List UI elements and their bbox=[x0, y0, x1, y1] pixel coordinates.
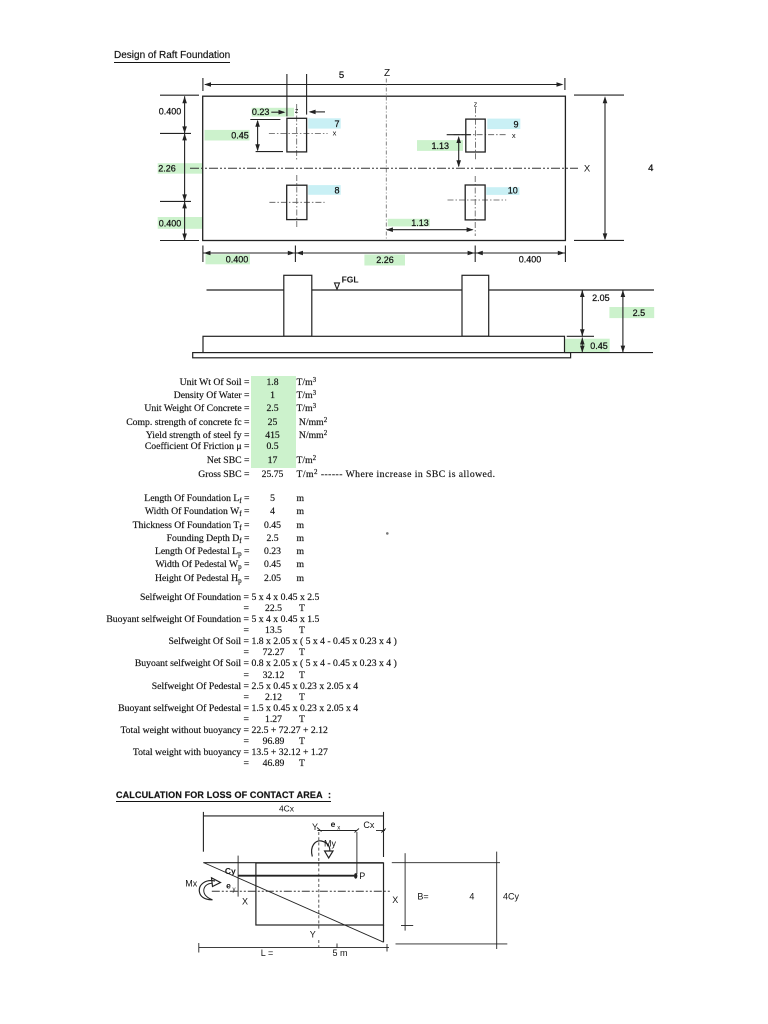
highlight pedestal 7 tag bbox=[308, 118, 341, 128]
svg-text:X: X bbox=[392, 895, 398, 905]
stray mark bbox=[386, 532, 389, 535]
lean concrete layer bbox=[193, 353, 571, 358]
foundation rectangle bbox=[256, 863, 384, 925]
svg-text:z: z bbox=[295, 108, 299, 115]
top edge from apex bbox=[203, 862, 383, 864]
Y axis dashed bbox=[318, 832, 320, 929]
svg-text:L =: L = bbox=[261, 948, 273, 958]
svg-text:Cy: Cy bbox=[225, 866, 236, 876]
left dimension chain line bbox=[160, 95, 199, 240]
section pedestal right bbox=[462, 275, 489, 336]
node Z axis dashed line bbox=[385, 79, 387, 241]
dim Cx line bbox=[376, 830, 385, 832]
dim 1.13 (pedestal 9 to X axis) bbox=[447, 135, 471, 168]
svg-text:10: 10 bbox=[508, 186, 518, 196]
highlight 1.13 (bottom) bbox=[388, 219, 430, 227]
dim 4Cx line bbox=[203, 812, 383, 857]
svg-text:X: X bbox=[242, 896, 248, 906]
Cy/ey tick line bbox=[237, 856, 239, 897]
svg-text:0.45: 0.45 bbox=[590, 341, 608, 351]
tick at Y axis top bbox=[317, 828, 322, 832]
dim 2.05 bbox=[567, 290, 594, 336]
svg-text:FGL: FGL bbox=[342, 275, 359, 285]
svg-text:My: My bbox=[324, 839, 336, 849]
dim 1.13 (Z axis to pedestal 10) bbox=[386, 227, 474, 232]
right edge extension bbox=[383, 925, 385, 942]
dim ex line bbox=[317, 830, 356, 832]
svg-text:0.400: 0.400 bbox=[159, 106, 182, 116]
dim 4Cy line bbox=[396, 852, 508, 949]
FGL marker bbox=[335, 283, 340, 289]
highlight pedestal 10 tag bbox=[486, 187, 519, 195]
svg-text:0.400: 0.400 bbox=[159, 218, 182, 228]
svg-text:4Cy: 4Cy bbox=[503, 892, 520, 902]
svg-text:9: 9 bbox=[513, 120, 518, 130]
dim 4 line (right) bbox=[574, 95, 624, 240]
dim 0.45 (pedestal 7) bbox=[250, 120, 283, 152]
svg-text:z: z bbox=[474, 101, 478, 108]
pedestal 9 bbox=[454, 107, 508, 160]
tick at right edge bbox=[381, 829, 386, 833]
ground line bbox=[207, 289, 655, 291]
svg-text:4: 4 bbox=[648, 163, 653, 174]
X centerline (contact) bbox=[212, 890, 390, 892]
highlight 1.13 (top) bbox=[417, 140, 463, 151]
svg-text:x: x bbox=[333, 129, 337, 138]
bottom dimension chain bbox=[203, 246, 566, 263]
P vertical line bbox=[356, 832, 358, 874]
svg-text:4Cx: 4Cx bbox=[279, 803, 295, 813]
dim 5 line (top) bbox=[203, 78, 565, 91]
svg-text:Cx: Cx bbox=[363, 820, 374, 830]
svg-text:1.13: 1.13 bbox=[432, 141, 450, 151]
node X axis dash-dot centerline bbox=[190, 167, 578, 169]
dim 0.23 (pedestal 7) bbox=[271, 74, 325, 116]
svg-text:e: e bbox=[331, 819, 336, 829]
P load line bbox=[238, 875, 354, 877]
raft plan outline bbox=[203, 96, 566, 240]
highlight 0.45 bbox=[205, 130, 250, 141]
highlight 0.23 bbox=[252, 108, 294, 117]
svg-text:2.26: 2.26 bbox=[158, 164, 176, 174]
dim B line bbox=[392, 853, 413, 930]
svg-text:0.400: 0.400 bbox=[519, 255, 542, 265]
svg-text:P: P bbox=[359, 871, 365, 881]
highlight 0.400 (bottom-left) bbox=[158, 217, 203, 229]
raft slab bbox=[203, 336, 565, 352]
pedestal 10 bbox=[448, 176, 507, 236]
highlight 0.400 (bottom dim) bbox=[206, 254, 251, 264]
moment Mx curved arrow bbox=[199, 878, 220, 900]
highlight 2.26 (bottom dim) bbox=[364, 255, 405, 266]
title bbox=[114, 50, 230, 63]
svg-text:0.45: 0.45 bbox=[231, 131, 249, 141]
svg-text:Y: Y bbox=[310, 929, 316, 939]
svg-text:Z: Z bbox=[384, 68, 390, 79]
tick at P line bbox=[355, 829, 360, 833]
svg-text:4: 4 bbox=[469, 892, 474, 902]
svg-text:2.05: 2.05 bbox=[592, 293, 610, 303]
svg-text:X: X bbox=[584, 164, 591, 175]
founding level line bbox=[565, 352, 654, 354]
highlight 0.45 (section) bbox=[565, 339, 610, 353]
P point bbox=[354, 873, 357, 879]
svg-text:8: 8 bbox=[334, 186, 339, 196]
highlight 2.26 bbox=[158, 163, 203, 174]
svg-text:B=: B= bbox=[417, 892, 428, 902]
section pedestal left bbox=[284, 275, 312, 336]
svg-text:5 m: 5 m bbox=[332, 948, 347, 958]
diagonal no-contact line bbox=[203, 863, 383, 943]
pedestal 7 bbox=[269, 104, 328, 161]
dim L line bbox=[199, 943, 389, 953]
svg-text:y: y bbox=[233, 887, 236, 893]
highlight 2.5 bbox=[609, 307, 654, 318]
svg-text:7: 7 bbox=[334, 119, 339, 129]
highlight pedestal 9 tag bbox=[487, 119, 520, 130]
highlight pedestal 8 tag bbox=[308, 185, 341, 195]
dim 0.45 (section) bbox=[580, 338, 585, 353]
svg-text:Y: Y bbox=[312, 822, 318, 832]
svg-text:e: e bbox=[226, 880, 231, 890]
svg-text:0.400: 0.400 bbox=[226, 255, 249, 265]
svg-text:2.5: 2.5 bbox=[633, 308, 646, 318]
svg-text:2.26: 2.26 bbox=[376, 255, 394, 265]
svg-text:0.23: 0.23 bbox=[252, 107, 270, 117]
green value column highlight (table 1) bbox=[251, 376, 296, 468]
svg-text:Mx: Mx bbox=[185, 879, 197, 889]
contact area section title bbox=[116, 790, 331, 803]
dim 2.5 bbox=[621, 290, 626, 353]
moment My curved arrow bbox=[312, 841, 333, 858]
svg-text:1.13: 1.13 bbox=[411, 218, 429, 228]
svg-text:x: x bbox=[512, 131, 516, 140]
svg-text:x: x bbox=[337, 826, 340, 832]
pedestal 8 bbox=[269, 175, 324, 228]
svg-text:5: 5 bbox=[339, 70, 344, 81]
